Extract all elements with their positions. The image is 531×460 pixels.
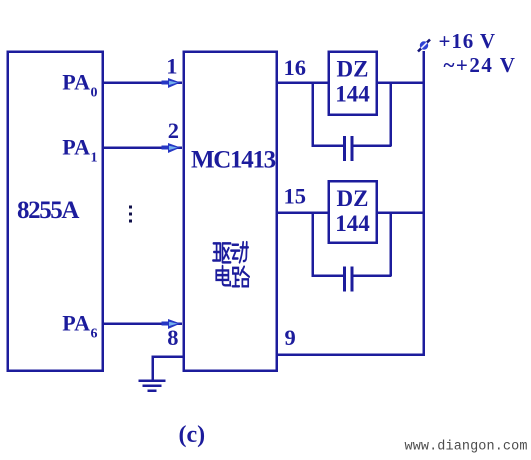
capacitor C2 wires bbox=[312, 274, 392, 277]
svg-text:144: 144 bbox=[335, 211, 370, 236]
svg-text:8: 8 bbox=[167, 325, 178, 350]
capacitor C1 branch left bbox=[311, 83, 314, 147]
svg-text:1: 1 bbox=[166, 54, 177, 79]
wire pin15 to DZ2 bbox=[276, 211, 329, 214]
capacitor C1 plates bbox=[343, 136, 354, 161]
wire pin9 to supply bus bbox=[276, 353, 425, 356]
diode DZ144 (2) box bbox=[329, 181, 377, 243]
svg-text:DZ: DZ bbox=[337, 186, 369, 211]
ground wire stub from pin 8 side bbox=[152, 357, 184, 381]
wire DZ2 to supply bus bbox=[376, 211, 424, 214]
路 bbox=[232, 267, 249, 287]
wire pin16 to DZ1 bbox=[276, 81, 329, 84]
动 bbox=[231, 242, 248, 262]
svg-text:+16 V: +16 V bbox=[439, 29, 497, 53]
svg-text:0: 0 bbox=[91, 86, 98, 101]
svg-text:(c): (c) bbox=[179, 422, 206, 448]
svg-text:MC1413: MC1413 bbox=[191, 147, 276, 174]
svg-text:PA: PA bbox=[62, 135, 90, 160]
ellipsis dots between PA1 and PA6 bbox=[129, 206, 132, 223]
supply bus vertical wire bbox=[422, 51, 425, 356]
svg-text:1: 1 bbox=[91, 151, 98, 166]
svg-text:2: 2 bbox=[168, 118, 179, 143]
wire PA6 to pin 8 bbox=[102, 322, 183, 325]
svg-text:www.diangon.com: www.diangon.com bbox=[405, 440, 528, 455]
svg-text:15: 15 bbox=[284, 184, 307, 209]
capacitor C1 branch right bbox=[389, 83, 392, 147]
capacitor C1 wires bbox=[312, 144, 392, 147]
capacitor C2 plates bbox=[343, 267, 354, 292]
svg-text:DZ: DZ bbox=[337, 57, 369, 82]
wire PA0 to pin 1 bbox=[102, 81, 183, 84]
电 bbox=[216, 266, 230, 285]
wire PA1 to pin 2 bbox=[102, 146, 183, 149]
arrowhead on PA0 wire bbox=[162, 78, 181, 88]
arrowhead on PA1 wire bbox=[162, 143, 181, 153]
diode DZ144 (1) box bbox=[329, 52, 377, 115]
svg-text:6: 6 bbox=[91, 327, 98, 342]
svg-text:8255A: 8255A bbox=[17, 197, 79, 224]
IC U1 8255A box bbox=[8, 52, 103, 371]
IC U2 MC1413 driver box bbox=[184, 52, 277, 371]
驱 bbox=[213, 243, 231, 262]
svg-text:~+24 V: ~+24 V bbox=[444, 53, 517, 77]
capacitor C2 branch left bbox=[311, 213, 314, 277]
supply terminal bbox=[418, 40, 430, 52]
wire DZ1 to supply bus bbox=[376, 81, 424, 84]
ground symbol bbox=[139, 381, 166, 391]
label 驱动 (drive) drawn as paths bbox=[213, 242, 249, 286]
capacitor C2 branch right bbox=[389, 213, 392, 277]
svg-text:16: 16 bbox=[284, 55, 307, 80]
arrowhead on PA6 wire bbox=[162, 319, 181, 329]
svg-text:9: 9 bbox=[285, 325, 296, 350]
svg-text:PA: PA bbox=[62, 70, 90, 95]
svg-text:144: 144 bbox=[335, 82, 370, 107]
svg-text:PA: PA bbox=[62, 311, 90, 336]
